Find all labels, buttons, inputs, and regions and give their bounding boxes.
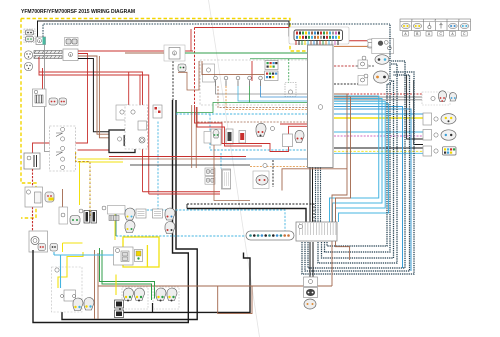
- svg-text:YFM700RF/YFM700RSF 2015 WIRING: YFM700RF/YFM700RSF 2015 WIRING DIAGRAM: [21, 9, 135, 15]
